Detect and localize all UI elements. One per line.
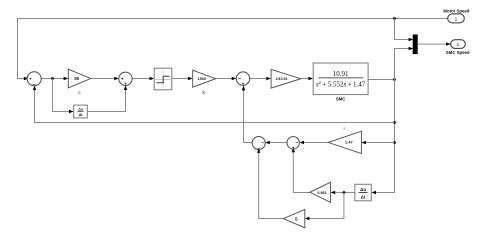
gain 1/10.91 xyxy=(271,69,301,88)
wire: gain 5 output up to lower sum A bottom input xyxy=(259,151,284,219)
node: junction to long bottom feedback xyxy=(393,121,396,124)
wire: sum3 output to gain 1/10.91 xyxy=(250,78,269,80)
svg-text:−: − xyxy=(238,76,241,82)
svg-text:+: + xyxy=(242,82,245,87)
outport SMC Speed xyxy=(446,40,470,55)
node: junction feeding gain 1.47 xyxy=(393,141,396,144)
wire: lower sum A output up to sum3 bottom input xyxy=(244,90,253,143)
summing junction sum3 xyxy=(236,72,249,87)
wire: branch up to mux input 2 xyxy=(395,49,411,80)
svg-text:+: + xyxy=(124,82,127,87)
wire: mux output to SMC Speed port xyxy=(418,43,449,45)
gain 5 (left pointing) xyxy=(283,209,305,227)
svg-text:Δu: Δu xyxy=(78,107,83,111)
node: junction on top line feeding mux input 1 xyxy=(393,17,396,20)
svg-text:50: 50 xyxy=(74,76,79,81)
svg-text:1: 1 xyxy=(457,42,460,48)
lower summing junction A xyxy=(252,137,265,152)
wire: branch down to gain 5 xyxy=(307,193,344,219)
svg-text:1900: 1900 xyxy=(197,76,206,81)
wire: branch from sum1 output down to derivative block 1 xyxy=(53,79,72,112)
gain k (1900) xyxy=(193,70,216,96)
summing junction sum1 xyxy=(27,72,41,88)
wire: derivative 1 output to sum2 bottom input xyxy=(87,88,125,112)
derivative block 1 (du/dt) xyxy=(74,105,88,118)
wire: lower sum B output to lower sum A right input xyxy=(268,142,288,144)
summing junction sum2 xyxy=(119,72,132,87)
wire: gain 1/10.91 output to SMC transfer fcn xyxy=(301,78,311,80)
svg-text:SMC: SMC xyxy=(336,97,347,102)
wire: branch from top line down to mux input 1 xyxy=(395,19,411,40)
wire: right vertical bus down to derivative block 2 xyxy=(374,80,395,193)
svg-text:Δt: Δt xyxy=(361,195,366,200)
outport Motor Speed xyxy=(443,8,469,23)
svg-text:+: + xyxy=(29,77,32,82)
svg-text:SMC Speed: SMC Speed xyxy=(446,50,470,55)
svg-text:+: + xyxy=(292,146,295,151)
svg-text:Motor Speed: Motor Speed xyxy=(443,8,469,13)
svg-text:−: − xyxy=(261,141,264,147)
lower summing junction B xyxy=(287,137,299,151)
transfer function SMC plant: 10.91/(s^2+5.552s+1.47) xyxy=(313,63,368,102)
node: junction after sum1 xyxy=(51,77,54,80)
svg-text:1/10.91: 1/10.91 xyxy=(276,77,288,81)
svg-text:−: − xyxy=(295,141,298,147)
wire: gain 6.952 output up to lower sum B bottom input xyxy=(293,150,310,192)
gain 1.47 (left pointing) xyxy=(328,127,361,153)
node: junction at transfer fcn output xyxy=(393,78,396,81)
wire: sum2 output to relay xyxy=(132,78,152,80)
wire: long bottom feedback to sum1 bottom input xyxy=(35,88,395,123)
wire: relay output to gain k xyxy=(172,78,190,80)
svg-text:−: − xyxy=(257,146,260,152)
wire: sum1 output to gain c xyxy=(41,78,65,80)
svg-text:6.952: 6.952 xyxy=(318,191,327,195)
svg-text:1: 1 xyxy=(455,16,458,22)
wire: gain c output to sum2 left input xyxy=(91,78,117,80)
wire: into gain 1.47 xyxy=(364,142,395,144)
svg-text:10.91: 10.91 xyxy=(333,70,349,78)
relay block xyxy=(154,68,172,90)
node: junction on derivative 2 output xyxy=(343,191,346,194)
wire: gain 1.47 output to lower sum B right input xyxy=(302,142,328,144)
svg-text:1.47: 1.47 xyxy=(345,140,354,145)
wire: SMC transfer fcn output to right bus xyxy=(368,79,394,81)
wire: gain k output to sum3 left input xyxy=(216,78,234,80)
gain c (50) xyxy=(68,69,90,96)
svg-text:−: − xyxy=(33,82,36,88)
derivative block 2 (du/dt) xyxy=(355,184,372,201)
svg-text:Δu: Δu xyxy=(360,187,366,192)
wire: derivative 2 output to gain 6.952 xyxy=(333,192,355,194)
wire: top feedback line from Motor Speed port to sum1 left input xyxy=(18,19,448,79)
mux xyxy=(413,35,418,55)
svg-text:s2 + 5.552s + 1.47: s2 + 5.552s + 1.47 xyxy=(316,80,366,88)
gain 6.952 (left pointing) xyxy=(310,182,331,202)
